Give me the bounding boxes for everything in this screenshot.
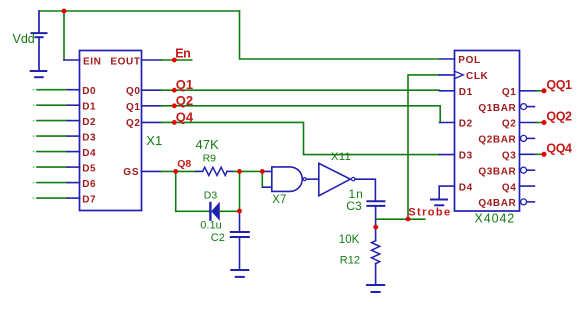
junction dots layer [62,9,547,230]
node C3/R12 junction [373,225,378,230]
wire X11 out to C3 [355,179,375,201]
svg-text:47K: 47K [196,137,219,152]
svg-text:X4042: X4042 [475,211,516,225]
svg-text:D3: D3 [204,190,218,202]
svg-text:En: En [175,47,190,61]
output Q1BAR bubble and stub [521,104,527,110]
wire NAND input tie [261,171,263,187]
svg-text:Vdd: Vdd [13,32,35,46]
pin names Q outputs [478,87,516,209]
wires D0-D7 input stubs [37,90,68,198]
resistor R12 zigzag [372,241,380,264]
svg-text:Q2: Q2 [502,119,517,130]
node Q1 label dot [172,88,177,93]
svg-text:C2: C2 [211,232,225,244]
svg-text:D4: D4 [82,148,96,159]
svg-text:Q1BAR: Q1BAR [478,103,516,114]
svg-text:Q8: Q8 [177,158,191,170]
svg-text:D2: D2 [459,119,473,130]
output Q4BAR bubble and stub [521,199,527,205]
svg-text:D4: D4 [459,182,473,193]
node NAND input junction [260,169,265,174]
svg-text:Q4BAR: Q4BAR [478,198,516,209]
bubble X7 output [303,178,306,181]
ground below R12 [367,285,384,292]
pin stub EIN [64,59,80,61]
node Q2 label dot [172,103,177,108]
output Q3BAR bubble and stub [521,167,527,173]
svg-text:D1: D1 [459,87,473,98]
node QQ4 [542,152,547,157]
pin names D1-D4 [459,87,473,193]
resistor R9 left lead [196,170,203,172]
svg-text:D6: D6 [82,179,96,190]
capacitor C3 [367,201,384,241]
svg-text:D0: D0 [82,86,96,97]
wire strobe up to CLK [408,75,440,219]
wire junction up to R9 right [239,171,241,211]
IC U-left X1 box [80,51,142,211]
pin stubs X7 inputs [262,171,272,187]
node Vdd junction [62,9,67,14]
ground below Vdd [31,71,47,77]
output Q4 stub [520,185,535,187]
svg-text:Strobe: Strobe [408,207,451,219]
pin stubs D0-D7 [68,90,80,198]
svg-text:POL: POL [458,55,480,66]
svg-text:GS: GS [123,167,139,178]
node Q8 [173,169,178,174]
node En [172,58,177,63]
pin stub EOUT to En [142,59,162,61]
svg-text:C3: C3 [346,199,362,213]
node R9/D3 junction [237,169,242,174]
svg-text:Q1: Q1 [176,77,193,92]
svg-text:D3: D3 [82,133,96,144]
node Strobe [406,217,411,222]
ground below C2 [231,270,248,277]
wire strobe horizontal [376,218,425,220]
pin stub CLK [440,74,455,76]
svg-text:D7: D7 [82,195,96,206]
svg-text:Q2BAR: Q2BAR [478,135,516,146]
svg-text:Q2: Q2 [176,93,193,108]
node Q4 label dot [172,120,177,125]
svg-text:Q4: Q4 [176,109,194,124]
svg-text:Q1: Q1 [126,102,141,113]
svg-text:Q0: Q0 [126,86,141,97]
IC X4042 box [455,51,520,212]
svg-text:0.1u: 0.1u [200,220,221,232]
inverter X11 triangle [319,163,351,196]
svg-text:QQ2: QQ2 [546,110,572,124]
wire diode cathode to junction [219,210,239,212]
node QQ2 [542,120,547,125]
net GS/Q8 [142,170,162,172]
svg-text:D5: D5 [82,164,96,175]
svg-text:X7: X7 [272,194,286,206]
svg-text:10K: 10K [339,234,360,246]
pin stub D4 to ground [439,186,454,199]
output Q1 stub [520,90,536,92]
wire POL from Vdd rail [240,11,440,59]
Vdd source V1 [32,11,47,71]
clock triangle CLK [455,71,464,78]
wire end ticks D0-D7 [33,90,35,198]
wire Vdd top rail [39,10,240,12]
svg-text:D3: D3 [459,151,473,162]
svg-text:QQ4: QQ4 [546,142,572,156]
svg-text:R9: R9 [203,153,217,165]
svg-text:Q3BAR: Q3BAR [478,166,516,177]
svg-text:X1: X1 [146,133,162,148]
wire EIN drop [63,11,65,60]
output Q2BAR bubble and stub [521,135,527,141]
svg-text:Q1: Q1 [502,87,517,98]
wire R12 to ground [375,264,377,285]
resistor R9 zigzag [203,167,227,175]
nand gate X7 [272,167,302,192]
svg-text:EIN: EIN [83,56,101,67]
diode D3 [210,203,219,220]
output Q2 stub [520,122,536,124]
svg-text:Q3: Q3 [502,151,517,162]
svg-text:Q4: Q4 [502,182,517,193]
node D3/C2 junction [237,209,242,214]
wire R9 to NAND input [227,170,234,172]
svg-text:D1: D1 [82,102,96,113]
pin stub POL [440,58,455,60]
wire Q8 down to diode [176,171,210,211]
node QQ1 [542,88,547,93]
svg-text:CLK: CLK [466,71,489,82]
wire R9 to NAND [234,170,262,172]
pin names D0-D7 [82,86,96,205]
ground at D4 [431,200,447,206]
net Q2 : Q1 pin to D2 of X4042 [142,105,162,107]
net Q4 : Q2 pin to D3 of X4042 [142,121,162,123]
output Q3 stub [520,153,536,155]
svg-text:D2: D2 [82,117,96,128]
svg-text:R12: R12 [340,255,360,267]
capacitor C2 [231,211,249,270]
wire X7 out to X11 in [306,178,318,180]
svg-text:QQ1: QQ1 [546,78,572,92]
bubble X11 output [352,177,355,180]
net Q1 : Q0 pin to D1 of X4042 [142,89,162,91]
wire En [161,59,192,61]
pin names Q0-Q2, GS [123,86,140,178]
svg-text:EOUT: EOUT [110,56,140,67]
svg-text:Q2: Q2 [126,118,141,129]
svg-text:X11: X11 [331,151,351,163]
